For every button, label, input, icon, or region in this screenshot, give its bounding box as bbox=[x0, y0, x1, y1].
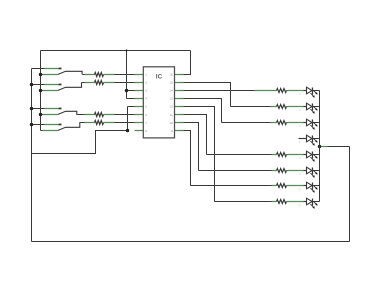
resistor R5 bbox=[277, 89, 287, 93]
switch S4 fixed-contact wire bbox=[32, 124, 45, 126]
led LED8 cathode wire bbox=[313, 201, 320, 203]
wire pin13 to LED3 feed bbox=[184, 99, 222, 123]
svg-text:11: 11 bbox=[170, 113, 173, 117]
led LED8 light arrows bbox=[313, 201, 316, 204]
resistor R11 bbox=[277, 200, 287, 204]
led LED4 triangle bbox=[307, 135, 313, 142]
node pin8 junction bbox=[126, 129, 130, 133]
wire R6 to LED2 bbox=[287, 106, 304, 108]
wire pin15 to LED2 feed bbox=[184, 83, 231, 107]
wire bottom ground rail bbox=[32, 241, 350, 243]
wire pin4 stub bbox=[127, 98, 135, 100]
wire to R6 bbox=[231, 106, 271, 108]
led LED1 cathode bar bbox=[312, 88, 314, 95]
svg-text:4: 4 bbox=[145, 97, 147, 101]
resistor R4 bbox=[95, 121, 104, 125]
switch S2 fixed-contact wire bbox=[32, 84, 45, 86]
switch S1 lever bbox=[58, 71, 82, 74]
led LED5 light arrows bbox=[313, 154, 316, 157]
svg-text:13: 13 bbox=[169, 97, 173, 101]
led LED3 anode lead bbox=[304, 122, 307, 124]
wire to R5 bbox=[255, 90, 277, 92]
led LED6 cathode bar bbox=[312, 168, 314, 175]
led LED7 anode lead bbox=[304, 185, 307, 187]
wire pin12 to LED8 feed bbox=[184, 107, 215, 202]
ic U1 pin leads left bbox=[135, 74, 144, 76]
resistor R2 bbox=[95, 81, 104, 85]
switch S4 fixed contact bbox=[59, 124, 62, 126]
svg-text:8: 8 bbox=[145, 129, 147, 133]
resistor R9 bbox=[277, 169, 287, 173]
led LED4 anode lead bbox=[299, 138, 307, 140]
resistor R3 bbox=[95, 113, 104, 117]
led LED2 cathode wire bbox=[313, 106, 320, 108]
switch S1 fixed contact bbox=[59, 68, 62, 70]
ic U1 pin leads right bbox=[175, 74, 184, 76]
wire S2 to R2 bbox=[82, 82, 85, 84]
wire IC pin8 ground drop bbox=[32, 131, 128, 154]
switch S3 fixed-contact wire bbox=[32, 108, 45, 110]
led LED1 light arrows bbox=[313, 90, 316, 93]
led LED8 triangle bbox=[307, 198, 313, 205]
led LED5 cathode bar bbox=[312, 152, 314, 159]
wire to R8 bbox=[207, 154, 272, 156]
ic U1 body bbox=[143, 67, 174, 138]
svg-text:9: 9 bbox=[171, 129, 173, 133]
wire R2 to IC bbox=[104, 82, 115, 84]
wire R7 to LED3 bbox=[287, 122, 304, 124]
resistor R6 bbox=[277, 105, 287, 109]
switch S3 fixed contact bbox=[59, 108, 62, 110]
svg-text:2: 2 bbox=[145, 81, 147, 85]
wire to R11 bbox=[215, 201, 272, 203]
wire switch-common bus (vertical) bbox=[40, 51, 42, 131]
node S1 pole junction bbox=[39, 73, 43, 77]
led LED2 anode lead bbox=[304, 106, 307, 108]
led LED6 anode lead bbox=[304, 170, 307, 172]
wire R3 to IC bbox=[104, 114, 115, 116]
wire pin14 to LED1 feed bbox=[184, 90, 255, 92]
led LED3 cathode bar bbox=[312, 120, 314, 127]
switch S1 pole wire bbox=[41, 74, 43, 76]
led LED2 cathode bar bbox=[312, 104, 314, 111]
led LED1 triangle bbox=[307, 87, 313, 94]
resistor R10 bbox=[277, 184, 287, 188]
led LED6 light arrows bbox=[313, 170, 316, 173]
led LED3 cathode wire bbox=[313, 122, 320, 124]
led LED5 anode lead bbox=[304, 154, 307, 156]
node S4 contact junction bbox=[30, 123, 34, 127]
wire to R9 bbox=[199, 170, 272, 172]
led LED4 light arrows bbox=[313, 138, 316, 141]
switch S2 lever bbox=[58, 83, 82, 91]
svg-text:6: 6 bbox=[145, 113, 147, 117]
wire R8 to LED5 bbox=[287, 154, 304, 156]
led LED2 triangle bbox=[307, 103, 313, 110]
switch S3 pole wire bbox=[41, 114, 43, 116]
wire to R7 bbox=[222, 122, 271, 124]
wire pin3 stub from rail drop bbox=[127, 90, 136, 92]
wire S1 to R1 bbox=[83, 74, 85, 76]
resistor R7 bbox=[277, 121, 287, 125]
svg-text:IC: IC bbox=[156, 74, 163, 81]
led LED5 triangle bbox=[307, 151, 313, 158]
led LED7 cathode bar bbox=[312, 183, 314, 190]
switch S4 pole wire bbox=[41, 130, 43, 132]
svg-text:16: 16 bbox=[169, 73, 173, 77]
wire pin16 riser bbox=[184, 51, 191, 75]
svg-text:10: 10 bbox=[169, 121, 173, 125]
led LED4 cathode bar bbox=[312, 136, 314, 143]
led LED4 cathode wire bbox=[313, 138, 320, 140]
wire to R10 bbox=[191, 185, 272, 187]
wire left ground bus bbox=[31, 69, 33, 242]
svg-text:5: 5 bbox=[145, 105, 147, 109]
led LED5 cathode wire bbox=[313, 154, 320, 156]
svg-text:12: 12 bbox=[169, 105, 173, 109]
switch S4 lever bbox=[58, 123, 80, 131]
svg-text:3: 3 bbox=[145, 89, 147, 93]
led LED1 anode lead bbox=[304, 90, 307, 92]
led LED8 cathode bar bbox=[312, 199, 314, 206]
wire pins 5-8 tie (vertical) bbox=[127, 107, 129, 131]
led LED3 triangle bbox=[307, 119, 313, 126]
svg-text:15: 15 bbox=[169, 81, 173, 85]
node S2 contact junction bbox=[30, 83, 34, 87]
wire R4 to IC bbox=[104, 122, 115, 124]
wire R10 to LED7 bbox=[287, 185, 304, 187]
wire pin10 to LED6 feed bbox=[184, 123, 199, 171]
led LED8 anode lead bbox=[304, 201, 307, 203]
node cathode bus junction bbox=[318, 145, 321, 148]
led LED7 cathode wire bbox=[313, 185, 320, 187]
node S3 contact junction bbox=[30, 107, 34, 111]
switch S2 pole wire bbox=[41, 90, 43, 92]
wire S4 to R4 bbox=[80, 122, 85, 124]
wire S3 to R3 bbox=[77, 114, 85, 116]
led LED1 cathode wire bbox=[313, 90, 320, 92]
wire R9 to LED6 bbox=[287, 170, 304, 172]
wire R11 to LED8 bbox=[287, 201, 304, 203]
wire top supply rail bbox=[41, 50, 191, 52]
node S2 pole junction bbox=[39, 89, 43, 93]
led LED3 light arrows bbox=[313, 122, 316, 125]
wire R1 to IC bbox=[104, 74, 115, 76]
node pin3 junction bbox=[125, 89, 129, 93]
wire rail drop to IC pins 3-4 bbox=[126, 51, 128, 99]
wire pin5 stub bbox=[128, 106, 135, 108]
led LED7 triangle bbox=[307, 182, 313, 189]
svg-text:14: 14 bbox=[169, 89, 173, 93]
led LED6 triangle bbox=[307, 167, 313, 174]
wire pin9 to LED7 feed bbox=[184, 131, 191, 186]
wire pin11 to LED5 feed bbox=[184, 115, 207, 155]
node S3 pole junction bbox=[39, 113, 43, 117]
resistor R8 bbox=[277, 153, 287, 157]
switch S3 lever bbox=[58, 111, 77, 114]
switch S2 fixed contact bbox=[59, 84, 62, 86]
node rail tee bbox=[126, 50, 128, 52]
led LED2 light arrows bbox=[313, 106, 316, 109]
resistor R1 bbox=[95, 73, 104, 77]
led LED7 light arrows bbox=[313, 185, 316, 188]
wire R5 to LED1 bbox=[287, 90, 304, 92]
wire cathode-bus branch to right riser bbox=[328, 146, 350, 148]
svg-text:1: 1 bbox=[145, 73, 147, 77]
wire LED cathode bus bbox=[319, 91, 321, 202]
led LED6 cathode wire bbox=[313, 170, 320, 172]
svg-text:7: 7 bbox=[145, 121, 147, 125]
wire right ground riser bbox=[349, 147, 351, 242]
switch S1 fixed-contact wire bbox=[32, 68, 45, 70]
